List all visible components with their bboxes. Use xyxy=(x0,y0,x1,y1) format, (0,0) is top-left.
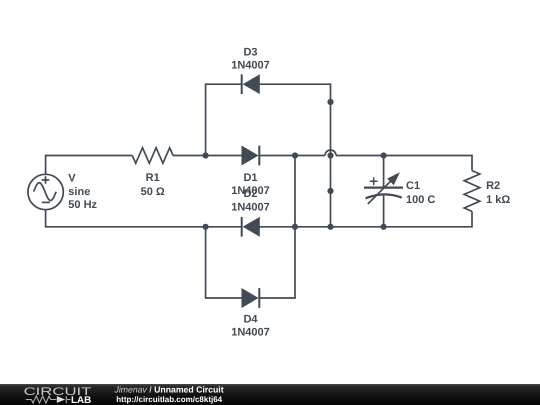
svg-text:Jimenav / Unnamed Circuit: Jimenav / Unnamed Circuit xyxy=(114,385,224,395)
wire left branch up to D3 xyxy=(206,84,242,155)
junction dots xyxy=(203,99,387,230)
wire R2 bottom to bottom rail xyxy=(259,211,472,226)
svg-text:1N4007: 1N4007 xyxy=(231,327,270,339)
svg-text:D4: D4 xyxy=(243,314,258,326)
svg-text:sine: sine xyxy=(68,186,90,198)
logo wire resistor diode squiggle xyxy=(26,396,71,403)
svg-text:1N4007: 1N4007 xyxy=(231,60,270,72)
svg-text:R1: R1 xyxy=(146,172,160,184)
svg-text:100 C: 100 C xyxy=(406,194,435,206)
svg-text:1 kΩ: 1 kΩ xyxy=(486,194,510,206)
svg-text:R2: R2 xyxy=(486,180,500,192)
svg-text:D1: D1 xyxy=(243,172,257,184)
wire source top to R1 xyxy=(46,156,133,175)
wire bottom rail D2 bar to source xyxy=(46,210,242,227)
svg-text:1N4007: 1N4007 xyxy=(231,201,270,213)
capacitor C1 xyxy=(364,156,403,227)
wire R1 to D1 anode xyxy=(173,155,242,157)
diode D2 xyxy=(242,217,260,237)
resistor R1 xyxy=(132,148,173,164)
wire D4 cathode to right branch up xyxy=(259,156,295,299)
diode D3 xyxy=(242,74,260,94)
wire D1 cathode to hop left xyxy=(259,155,325,157)
voltage source V xyxy=(28,174,63,209)
svg-text:V: V xyxy=(68,173,76,185)
svg-text:50 Ω: 50 Ω xyxy=(141,186,165,198)
svg-text:C1: C1 xyxy=(406,180,420,192)
svg-text:D3: D3 xyxy=(243,46,257,58)
svg-text:D2: D2 xyxy=(243,188,257,200)
svg-text:http://circuitlab.com/c8ktj64: http://circuitlab.com/c8ktj64 xyxy=(116,395,222,404)
diode D4 xyxy=(242,288,259,308)
diode D1 xyxy=(242,146,259,166)
wire left branch down to D4 xyxy=(206,227,242,298)
svg-text:50 Hz: 50 Hz xyxy=(68,199,97,211)
wire hop right to R2 top xyxy=(336,156,472,171)
wire hop over vertical at x=330.5 xyxy=(325,150,336,156)
svg-text:LAB: LAB xyxy=(71,395,91,405)
resistor R2 xyxy=(464,171,480,212)
wire D3 anode to right column down xyxy=(259,84,330,227)
footer bar xyxy=(0,384,540,405)
